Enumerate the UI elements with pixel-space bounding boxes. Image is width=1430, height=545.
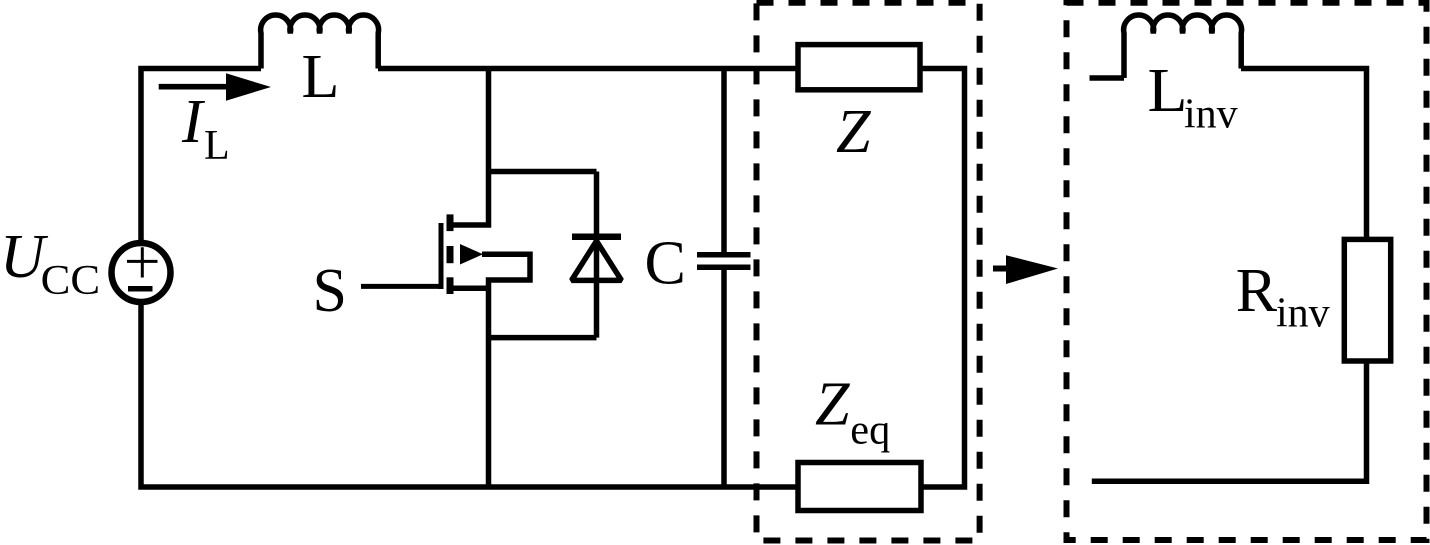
svg-text:inv: inv xyxy=(1184,92,1238,138)
svg-text:I: I xyxy=(181,88,206,156)
svg-text:L: L xyxy=(204,123,230,169)
svg-text:eq: eq xyxy=(850,408,890,454)
svg-text:L: L xyxy=(302,43,340,111)
svg-text:Z: Z xyxy=(836,98,871,166)
svg-text:R: R xyxy=(1236,257,1278,325)
svg-text:S: S xyxy=(313,257,347,325)
svg-text:inv: inv xyxy=(1276,291,1330,337)
svg-text:C: C xyxy=(645,230,686,298)
svg-text:L: L xyxy=(1148,57,1188,125)
svg-text:Z: Z xyxy=(815,371,850,439)
svg-text:CC: CC xyxy=(41,258,100,304)
